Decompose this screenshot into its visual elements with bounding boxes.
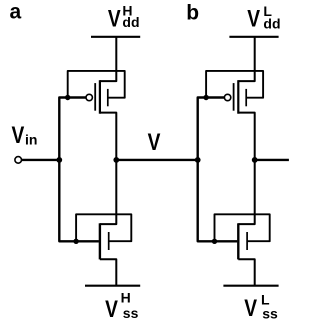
svg-text:a: a [10,1,22,24]
svg-text:in: in [25,132,37,148]
svg-text:dd: dd [122,14,139,30]
svg-text:V: V [247,5,260,33]
svg-text:dd: dd [263,15,280,31]
svg-text:V: V [244,294,257,322]
svg-text:V: V [12,121,25,149]
svg-text:V: V [105,295,118,323]
svg-text:b: b [186,2,199,25]
svg-text:ss: ss [262,305,278,321]
svg-text:V: V [108,4,121,32]
svg-text:V: V [148,128,161,156]
svg-text:H: H [121,290,131,306]
svg-text:ss: ss [123,305,139,321]
